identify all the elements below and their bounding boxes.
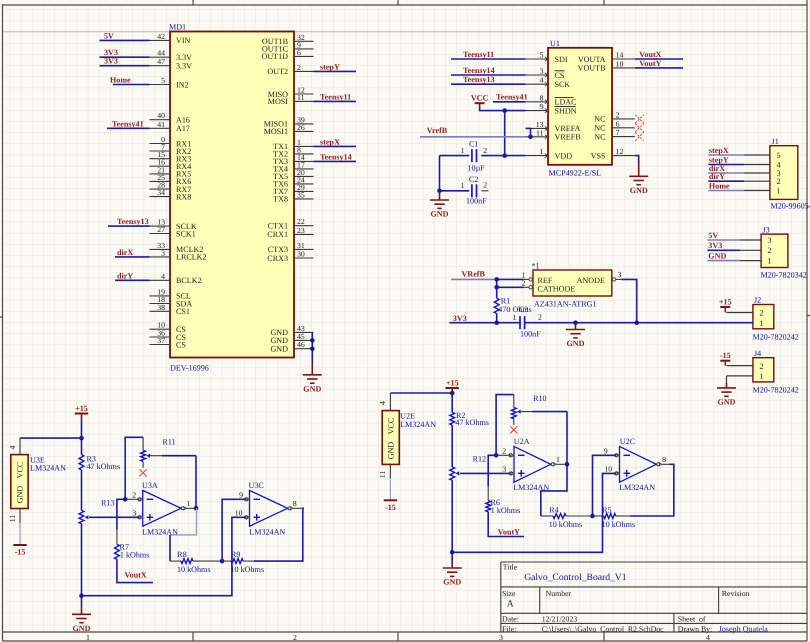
wire net Teensy13 — [108, 225, 150, 227]
svg-text:CRX3: CRX3 — [267, 254, 288, 263]
svg-text:23: 23 — [297, 226, 305, 235]
J4 pin 2 — [727, 362, 764, 371]
junction — [123, 497, 128, 502]
svg-text:stepY: stepY — [320, 62, 340, 71]
U1 pin 12 (VSS) — [591, 147, 635, 160]
svg-text:5: 5 — [161, 76, 165, 85]
svg-text:SHDN: SHDN — [555, 106, 577, 115]
svg-text:1: 1 — [768, 256, 772, 265]
svg-text:42: 42 — [157, 32, 165, 41]
MD1 pin 23 (CRX1) — [267, 226, 313, 239]
MD1 pin 15 (RX3) — [150, 150, 192, 163]
wire U3A pin2 node to R7 — [117, 499, 125, 529]
J1 pin 1 — [744, 186, 781, 195]
svg-text:10: 10 — [604, 465, 612, 474]
wire VREFA branch — [526, 128, 531, 136]
MD1 pin 33 (MCLK2) — [150, 241, 204, 254]
svg-text:2: 2 — [616, 110, 620, 119]
MD1 pin 0 (RX1) — [150, 135, 192, 148]
svg-text:GND: GND — [708, 251, 726, 260]
no-connect marker R10 — [510, 426, 517, 433]
power +15 at J2 — [720, 306, 730, 308]
wire -15 to J4 pin 2 — [724, 361, 726, 366]
svg-text:3V3: 3V3 — [453, 314, 467, 323]
svg-text:Joseph Quatela: Joseph Quatela — [719, 624, 769, 633]
no-connect marker — [635, 132, 643, 140]
wire net Teensy14 — [451, 74, 526, 76]
svg-text:U3C: U3C — [249, 481, 264, 490]
MD1 pin 38 (CS1) — [150, 303, 190, 316]
svg-text:stepX: stepX — [320, 137, 340, 146]
opamp U3C — [249, 481, 288, 537]
U2E pin 4 — [389, 393, 391, 411]
wire J4 pin 1 to ground — [726, 376, 728, 383]
svg-text:MOSI: MOSI — [268, 97, 289, 106]
wire U2A pin2 up to R10 — [496, 395, 514, 456]
J2 pin 1 — [727, 319, 764, 328]
svg-text:+15: +15 — [75, 404, 88, 413]
svg-text:A17: A17 — [176, 124, 190, 133]
wire output down to R4 — [541, 464, 567, 516]
svg-text:4: 4 — [161, 272, 165, 281]
J3 pin 3 — [740, 236, 772, 245]
svg-text:REF: REF — [538, 276, 553, 285]
svg-text:+15: +15 — [446, 379, 459, 388]
svg-text:5V: 5V — [104, 31, 114, 40]
ground MD1 — [303, 363, 322, 383]
wire to U3E pin 4 — [20, 437, 82, 439]
U1 pin 5 (SDI) — [526, 51, 568, 64]
svg-text:VoutY: VoutY — [639, 59, 661, 68]
svg-text:34: 34 — [157, 188, 165, 197]
svg-text:8: 8 — [293, 499, 297, 508]
U2C pin 8 output — [657, 455, 670, 466]
svg-text:A: A — [507, 599, 514, 610]
svg-text:3V3: 3V3 — [104, 57, 118, 66]
U1 pin 2 (NC) — [594, 110, 635, 123]
junction — [79, 593, 84, 598]
svg-text:GND: GND — [431, 210, 449, 219]
wire net VrefB — [420, 136, 526, 138]
opamp U2A — [513, 437, 551, 492]
svg-text:dirY: dirY — [709, 172, 725, 181]
svg-text:Teensy11: Teensy11 — [320, 92, 351, 101]
U2C pin 10 — [604, 465, 619, 476]
svg-text:Teensy41: Teensy41 — [112, 119, 144, 128]
MD1 pin 36 (CS) — [150, 329, 186, 342]
connector J4 body — [753, 358, 774, 382]
wire 3V3 row to J2 pin 1 — [525, 322, 753, 324]
wire R9 to U3C feedback — [254, 508, 304, 561]
MD1 pin 30 (CRX3) — [267, 250, 313, 263]
svg-text:VrefB: VrefB — [427, 126, 448, 135]
wire feedback down to output — [195, 456, 197, 509]
U3A pin 3 — [132, 509, 142, 520]
U1 pin 8 (LDAC) — [526, 93, 577, 106]
wire net stepY — [314, 70, 357, 72]
MD1 pin 24 (TX6) — [273, 175, 313, 188]
resistor R3 47 kOhms — [79, 438, 120, 510]
svg-text:-15: -15 — [720, 351, 731, 360]
svg-text:NC: NC — [594, 115, 605, 124]
svg-text:J4: J4 — [754, 349, 761, 358]
svg-text:10 kOhms: 10 kOhms — [549, 520, 583, 529]
MD1 pin 13 (SCLK) — [150, 218, 197, 231]
svg-text:LRCLK2: LRCLK2 — [176, 253, 207, 262]
svg-text:3: 3 — [502, 465, 506, 474]
svg-text:U2A: U2A — [514, 437, 530, 446]
svg-text:GND: GND — [15, 486, 24, 504]
svg-text:M20-7820242: M20-7820242 — [753, 385, 799, 394]
junction — [450, 391, 455, 396]
wire net dirY — [115, 279, 150, 281]
svg-text:11: 11 — [378, 471, 387, 479]
svg-text:Home: Home — [110, 76, 131, 85]
MD1 pin 42 (VIN) — [150, 32, 191, 45]
svg-text:3: 3 — [618, 270, 622, 279]
wire net 5V — [707, 239, 740, 241]
svg-text:1 kOhms: 1 kOhms — [120, 551, 149, 560]
wire R12 wiper to U2A pin 3 — [460, 472, 511, 474]
svg-text:27: 27 — [157, 225, 165, 234]
svg-text:Teensy14: Teensy14 — [463, 66, 495, 75]
wire net Home — [708, 190, 744, 192]
wire R11 wiper to feedback — [150, 455, 162, 457]
svg-text:47 kOhms: 47 kOhms — [87, 462, 121, 471]
svg-text:SCK1: SCK1 — [176, 229, 196, 238]
svg-text:CS: CS — [176, 340, 186, 349]
svg-text:SDI: SDI — [555, 55, 568, 64]
svg-text:4: 4 — [378, 401, 387, 405]
svg-text:10 kOhms: 10 kOhms — [177, 565, 211, 574]
svg-text:Size: Size — [502, 589, 516, 598]
wire net 3V3 — [707, 249, 740, 251]
svg-text:3: 3 — [161, 248, 165, 257]
svg-text:-15: -15 — [385, 503, 396, 512]
svg-text:Galvo_Control_Board_V1: Galvo_Control_Board_V1 — [524, 572, 627, 583]
MD1 pin 46 (GND) — [270, 340, 313, 353]
connector J3 body — [761, 234, 788, 267]
MD1 pin 1 (TX1) — [273, 138, 313, 151]
J4 pin 1 — [727, 372, 764, 381]
junction — [565, 462, 570, 467]
MD1 pin 21 (RX5) — [150, 165, 192, 178]
svg-text:11: 11 — [8, 515, 17, 523]
svg-text:TX8: TX8 — [273, 195, 288, 204]
MD1 pin 34 (RX8) — [150, 188, 192, 201]
MD1 pin 28 (RX7) — [150, 181, 192, 194]
MD1 pin 10 (CS) — [150, 321, 186, 334]
svg-text:stepX: stepX — [709, 146, 729, 155]
MD1 pin 40 (A16) — [150, 111, 190, 124]
svg-text:IN2: IN2 — [176, 80, 189, 89]
svg-text:2: 2 — [502, 447, 506, 456]
MD1 pin 7 (RX2) — [150, 143, 192, 156]
svg-text:1: 1 — [760, 372, 764, 381]
ground C2 — [430, 193, 449, 209]
U1 pin 9 (SHDN) — [526, 102, 577, 115]
svg-text:M20-9960545: M20-9960545 — [771, 202, 810, 211]
svg-text:Teensy14: Teensy14 — [320, 152, 352, 161]
svg-text:VoutY: VoutY — [498, 527, 520, 536]
ic *1 AZ431AN-ATRG1 body — [533, 270, 612, 296]
wire MD1 GND bus — [311, 332, 313, 363]
ground U1 VSS — [629, 163, 648, 185]
wire net GND — [707, 260, 740, 262]
svg-text:MCP4922-E/SL: MCP4922-E/SL — [549, 169, 602, 178]
svg-text:4: 4 — [8, 445, 17, 449]
svg-text:R8: R8 — [177, 550, 186, 559]
svg-text:MD1: MD1 — [169, 23, 186, 32]
capacitor C2 — [461, 175, 488, 206]
U1 pin 1 (VDD) — [526, 147, 573, 160]
connector J2 body — [753, 305, 774, 329]
J1 pin 4 — [744, 160, 781, 169]
svg-text:GND: GND — [303, 384, 321, 393]
svg-text:R13: R13 — [101, 498, 115, 507]
svg-text:9: 9 — [604, 447, 608, 456]
svg-text:LM324AN: LM324AN — [619, 483, 655, 492]
svg-text:DEV-16996: DEV-16996 — [170, 364, 209, 373]
svg-text:8: 8 — [662, 455, 666, 464]
J3 pin 1 — [740, 256, 772, 265]
wire U3A pin2 up to R11 — [125, 437, 143, 499]
wire VRefB to CATHODE — [497, 279, 524, 287]
ground J4 — [717, 383, 736, 396]
svg-text:GND: GND — [73, 624, 91, 633]
svg-text:2: 2 — [132, 491, 136, 500]
connector J1 body — [770, 146, 798, 200]
potentiometer R13 — [79, 498, 114, 524]
U2A pin 2 — [496, 447, 514, 458]
MD1 pin 6 (OUT1D) — [261, 48, 313, 61]
U3A pin 2 — [125, 491, 143, 502]
svg-text:12: 12 — [616, 147, 624, 156]
svg-text:Drawn By:: Drawn By: — [678, 624, 712, 633]
wire R13 to ground rail — [81, 524, 83, 606]
svg-text:5: 5 — [777, 151, 781, 160]
svg-text:R4: R4 — [549, 506, 558, 515]
junction — [494, 453, 499, 458]
svg-text:1: 1 — [461, 146, 465, 155]
svg-text:37: 37 — [157, 336, 165, 345]
wire U2A pin2 node to R6 — [488, 455, 496, 486]
svg-text:3.3V: 3.3V — [176, 62, 192, 71]
wire ANODE to J2 row — [621, 279, 637, 322]
junction — [450, 550, 455, 555]
svg-text:100nF: 100nF — [466, 196, 487, 205]
MD1 pin 4 (BCLK2) — [150, 272, 202, 285]
J1 pin 3 — [744, 169, 781, 178]
wire C1 to C2 corner — [439, 156, 441, 191]
AZ431 pin 3 (ANODE) — [577, 270, 622, 285]
opamp U3A — [142, 481, 181, 537]
junction — [494, 285, 499, 290]
wire net 5V — [100, 39, 150, 41]
svg-text:VCC: VCC — [471, 94, 489, 103]
svg-text:Revision: Revision — [722, 589, 750, 598]
wire R8-R9 node to U3C pin 9 — [222, 499, 246, 561]
MD1 pin 41 (A17) — [150, 120, 190, 133]
svg-text:CRX1: CRX1 — [267, 230, 288, 239]
MD1 pin 17 (TX4) — [273, 160, 313, 173]
MD1 pin 16 (RX4) — [150, 158, 192, 171]
title block — [501, 562, 807, 632]
wire net stepX — [708, 154, 744, 156]
resistor R1 470 Ohms — [494, 287, 532, 322]
wire R10 wiper to feedback — [521, 411, 532, 413]
svg-text:R5: R5 — [602, 506, 611, 515]
svg-text:R10: R10 — [533, 394, 547, 403]
ground AZ431 — [566, 323, 585, 338]
resistor R9 10 kOhms — [222, 550, 264, 574]
wire R13 wiper to U3A pin 3 — [89, 516, 140, 518]
svg-text:12/21/2023: 12/21/2023 — [542, 615, 578, 624]
svg-text:11: 11 — [536, 128, 544, 137]
U1 pin 6 (NC) — [594, 119, 635, 132]
junction — [437, 189, 442, 194]
junction — [590, 514, 595, 519]
wire net stepX — [314, 145, 357, 147]
J3 pin 2 — [740, 246, 772, 255]
svg-text:VoutX: VoutX — [639, 50, 661, 59]
svg-text:2: 2 — [293, 633, 297, 642]
power +15 left — [75, 413, 88, 415]
MD1 pin 25 (RX6) — [150, 173, 192, 186]
wire +15 down — [451, 388, 453, 392]
U1 pin 3 (CS) — [526, 67, 565, 80]
wire net Teensy14 — [314, 160, 357, 162]
svg-text:Number: Number — [546, 589, 572, 598]
svg-text:GND: GND — [387, 442, 396, 460]
U3E pin 11 — [19, 509, 21, 524]
svg-text:R11: R11 — [163, 437, 176, 446]
U3C pin 10 — [235, 509, 250, 520]
svg-text:VIN: VIN — [176, 36, 191, 45]
svg-text:LM324AN: LM324AN — [400, 420, 436, 429]
svg-text:11: 11 — [297, 93, 305, 102]
svg-text:3V3: 3V3 — [708, 241, 722, 250]
svg-text:NC: NC — [594, 132, 605, 141]
svg-text:10µF: 10µF — [468, 164, 486, 173]
opamp U2C — [619, 437, 656, 492]
MD1 pin 27 (SCK1) — [150, 225, 196, 238]
svg-text:VoutX: VoutX — [125, 570, 147, 579]
U3E pin 4 — [19, 438, 21, 455]
MD1 pin 43 (GND) — [270, 324, 313, 337]
svg-text:14: 14 — [616, 51, 624, 60]
resistor R4 10 kOhms — [541, 506, 593, 529]
AZ431 pin 1 (REF) — [522, 270, 553, 284]
svg-text:VRefB: VRefB — [462, 270, 486, 279]
wire net VRefB — [451, 278, 497, 280]
svg-text:10 kOhms: 10 kOhms — [602, 520, 636, 529]
junction — [502, 153, 507, 158]
svg-text:AZ431AN-ATRG1: AZ431AN-ATRG1 — [534, 299, 597, 308]
U1 pin 14 (VOUTA) — [578, 51, 635, 64]
wire net Teensy41 — [107, 127, 150, 129]
svg-text:2: 2 — [483, 181, 487, 190]
wire to U2E pin 4 — [390, 392, 452, 394]
junction — [634, 320, 639, 325]
MD1 pin 19 (SCL) — [150, 287, 191, 300]
svg-text:35: 35 — [297, 190, 305, 199]
svg-text:4: 4 — [706, 633, 710, 642]
svg-text:J1: J1 — [772, 137, 779, 146]
wire VSS to ground — [635, 156, 639, 163]
MD1 pin 47 (3.3V) — [150, 57, 193, 70]
junction — [494, 320, 499, 325]
svg-text:File:: File: — [502, 624, 516, 633]
svg-text:GND: GND — [443, 578, 461, 587]
MD1 pin 22 (CTX1) — [268, 217, 314, 230]
resistor R5 10 kOhms — [593, 506, 636, 529]
wire VCC to VDD — [504, 111, 506, 156]
wire U3C pin10 to ground rail — [82, 517, 247, 595]
svg-text:C2: C2 — [469, 175, 478, 184]
svg-text:Teensy41: Teensy41 — [496, 92, 528, 101]
wire net Teensy11 — [314, 100, 357, 102]
svg-text:Title: Title — [503, 563, 518, 572]
svg-text:2: 2 — [777, 177, 781, 186]
svg-text:M20-7820242: M20-7820242 — [753, 332, 799, 341]
svg-text:VCC: VCC — [387, 418, 396, 435]
svg-text:LM324AN: LM324AN — [30, 463, 66, 472]
wire net VoutY — [488, 512, 524, 537]
major grid line horizontal — [3, 31, 808, 33]
wire net dirY — [708, 180, 744, 182]
U1 pin 10 (VOUTB) — [578, 59, 635, 72]
U1 pin 13 (VREFA) — [526, 120, 581, 133]
svg-text:GND: GND — [630, 186, 648, 195]
svg-text:C:\Users\..\Galvo Control R2: C:\Users\..\Galvo Control R2.SchDoc — [542, 624, 664, 633]
U3A pin 1 output — [181, 499, 196, 510]
svg-text:OUT2: OUT2 — [267, 67, 288, 76]
wire VDD row — [440, 155, 470, 157]
J1 pin 2 — [744, 177, 781, 186]
U2A pin 3 — [502, 465, 514, 476]
J1 pin 5 — [744, 151, 781, 160]
MD1 pin 35 (TX8) — [273, 190, 313, 203]
ground right rail — [443, 563, 462, 576]
ground left rail — [72, 606, 91, 623]
svg-text:100nF: 100nF — [520, 329, 541, 338]
svg-text:BCLK2: BCLK2 — [176, 276, 202, 285]
svg-text:OUT1D: OUT1D — [261, 52, 288, 61]
svg-text:2: 2 — [768, 246, 772, 255]
wire R12 to ground rail — [451, 480, 453, 563]
junction — [310, 338, 315, 343]
svg-text:1: 1 — [540, 147, 544, 156]
svg-text:47: 47 — [157, 57, 165, 66]
svg-text:30: 30 — [297, 250, 305, 259]
svg-text:+15: +15 — [719, 298, 732, 307]
svg-text:C1: C1 — [469, 140, 478, 149]
svg-text:RX8: RX8 — [176, 192, 191, 201]
svg-text:Teensy11: Teensy11 — [463, 50, 494, 59]
svg-text:1: 1 — [556, 455, 560, 464]
svg-text:2: 2 — [760, 362, 764, 371]
U2C pin 9 — [604, 447, 620, 458]
U1 pin 4 (SCK) — [526, 76, 571, 89]
resistor R8 10 kOhms — [170, 550, 222, 574]
svg-text:6: 6 — [297, 48, 301, 57]
opamp power U3E body — [11, 455, 28, 509]
MD1 pin 12 (MISO) — [268, 86, 314, 99]
potentiometer R12 — [450, 454, 486, 480]
opamp power U2E body — [382, 411, 399, 465]
no-connect marker — [635, 115, 643, 123]
